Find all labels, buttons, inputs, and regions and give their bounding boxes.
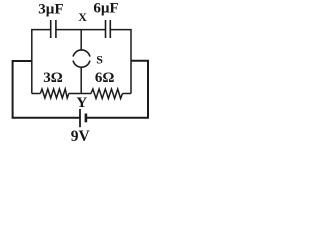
svg-text:X: X	[78, 10, 87, 24]
svg-text:6Ω: 6Ω	[95, 70, 115, 86]
wire top-left segment	[32, 30, 51, 94]
wire left jog	[13, 61, 32, 118]
source S circle bottom arc	[73, 61, 90, 68]
wire bottom left to battery	[12, 117, 80, 119]
capacitor C2 6uF left plate	[105, 20, 107, 38]
svg-text:9V: 9V	[71, 128, 91, 145]
capacitor C1 3uF right plate	[55, 20, 57, 38]
resistor R2 6 ohm zigzag	[91, 89, 123, 99]
capacitor C2 6uF right plate	[109, 20, 111, 38]
svg-text:6µF: 6µF	[93, 1, 118, 17]
svg-text:3Ω: 3Ω	[43, 70, 63, 86]
wire resistor row left stub	[32, 93, 41, 95]
battery B1 long plate	[79, 109, 81, 127]
wire top middle segment	[56, 29, 106, 31]
wire resistor row right stub	[123, 93, 132, 95]
battery B1 short plate	[85, 114, 88, 123]
wire source to node Y	[80, 67, 82, 93]
source S circle top arc	[73, 50, 90, 57]
svg-text:Y: Y	[76, 95, 87, 111]
wire top-right segment	[110, 30, 131, 94]
wire battery to bottom right	[86, 117, 149, 119]
svg-text:S: S	[96, 53, 103, 67]
svg-text:3µF: 3µF	[38, 2, 63, 18]
resistor R1 3 ohm zigzag	[40, 89, 69, 98]
wire right outer vertical	[131, 61, 148, 118]
wire between resistors	[69, 93, 91, 95]
wire node X dropper	[80, 30, 82, 51]
capacitor C1 3uF left plate	[50, 20, 52, 38]
